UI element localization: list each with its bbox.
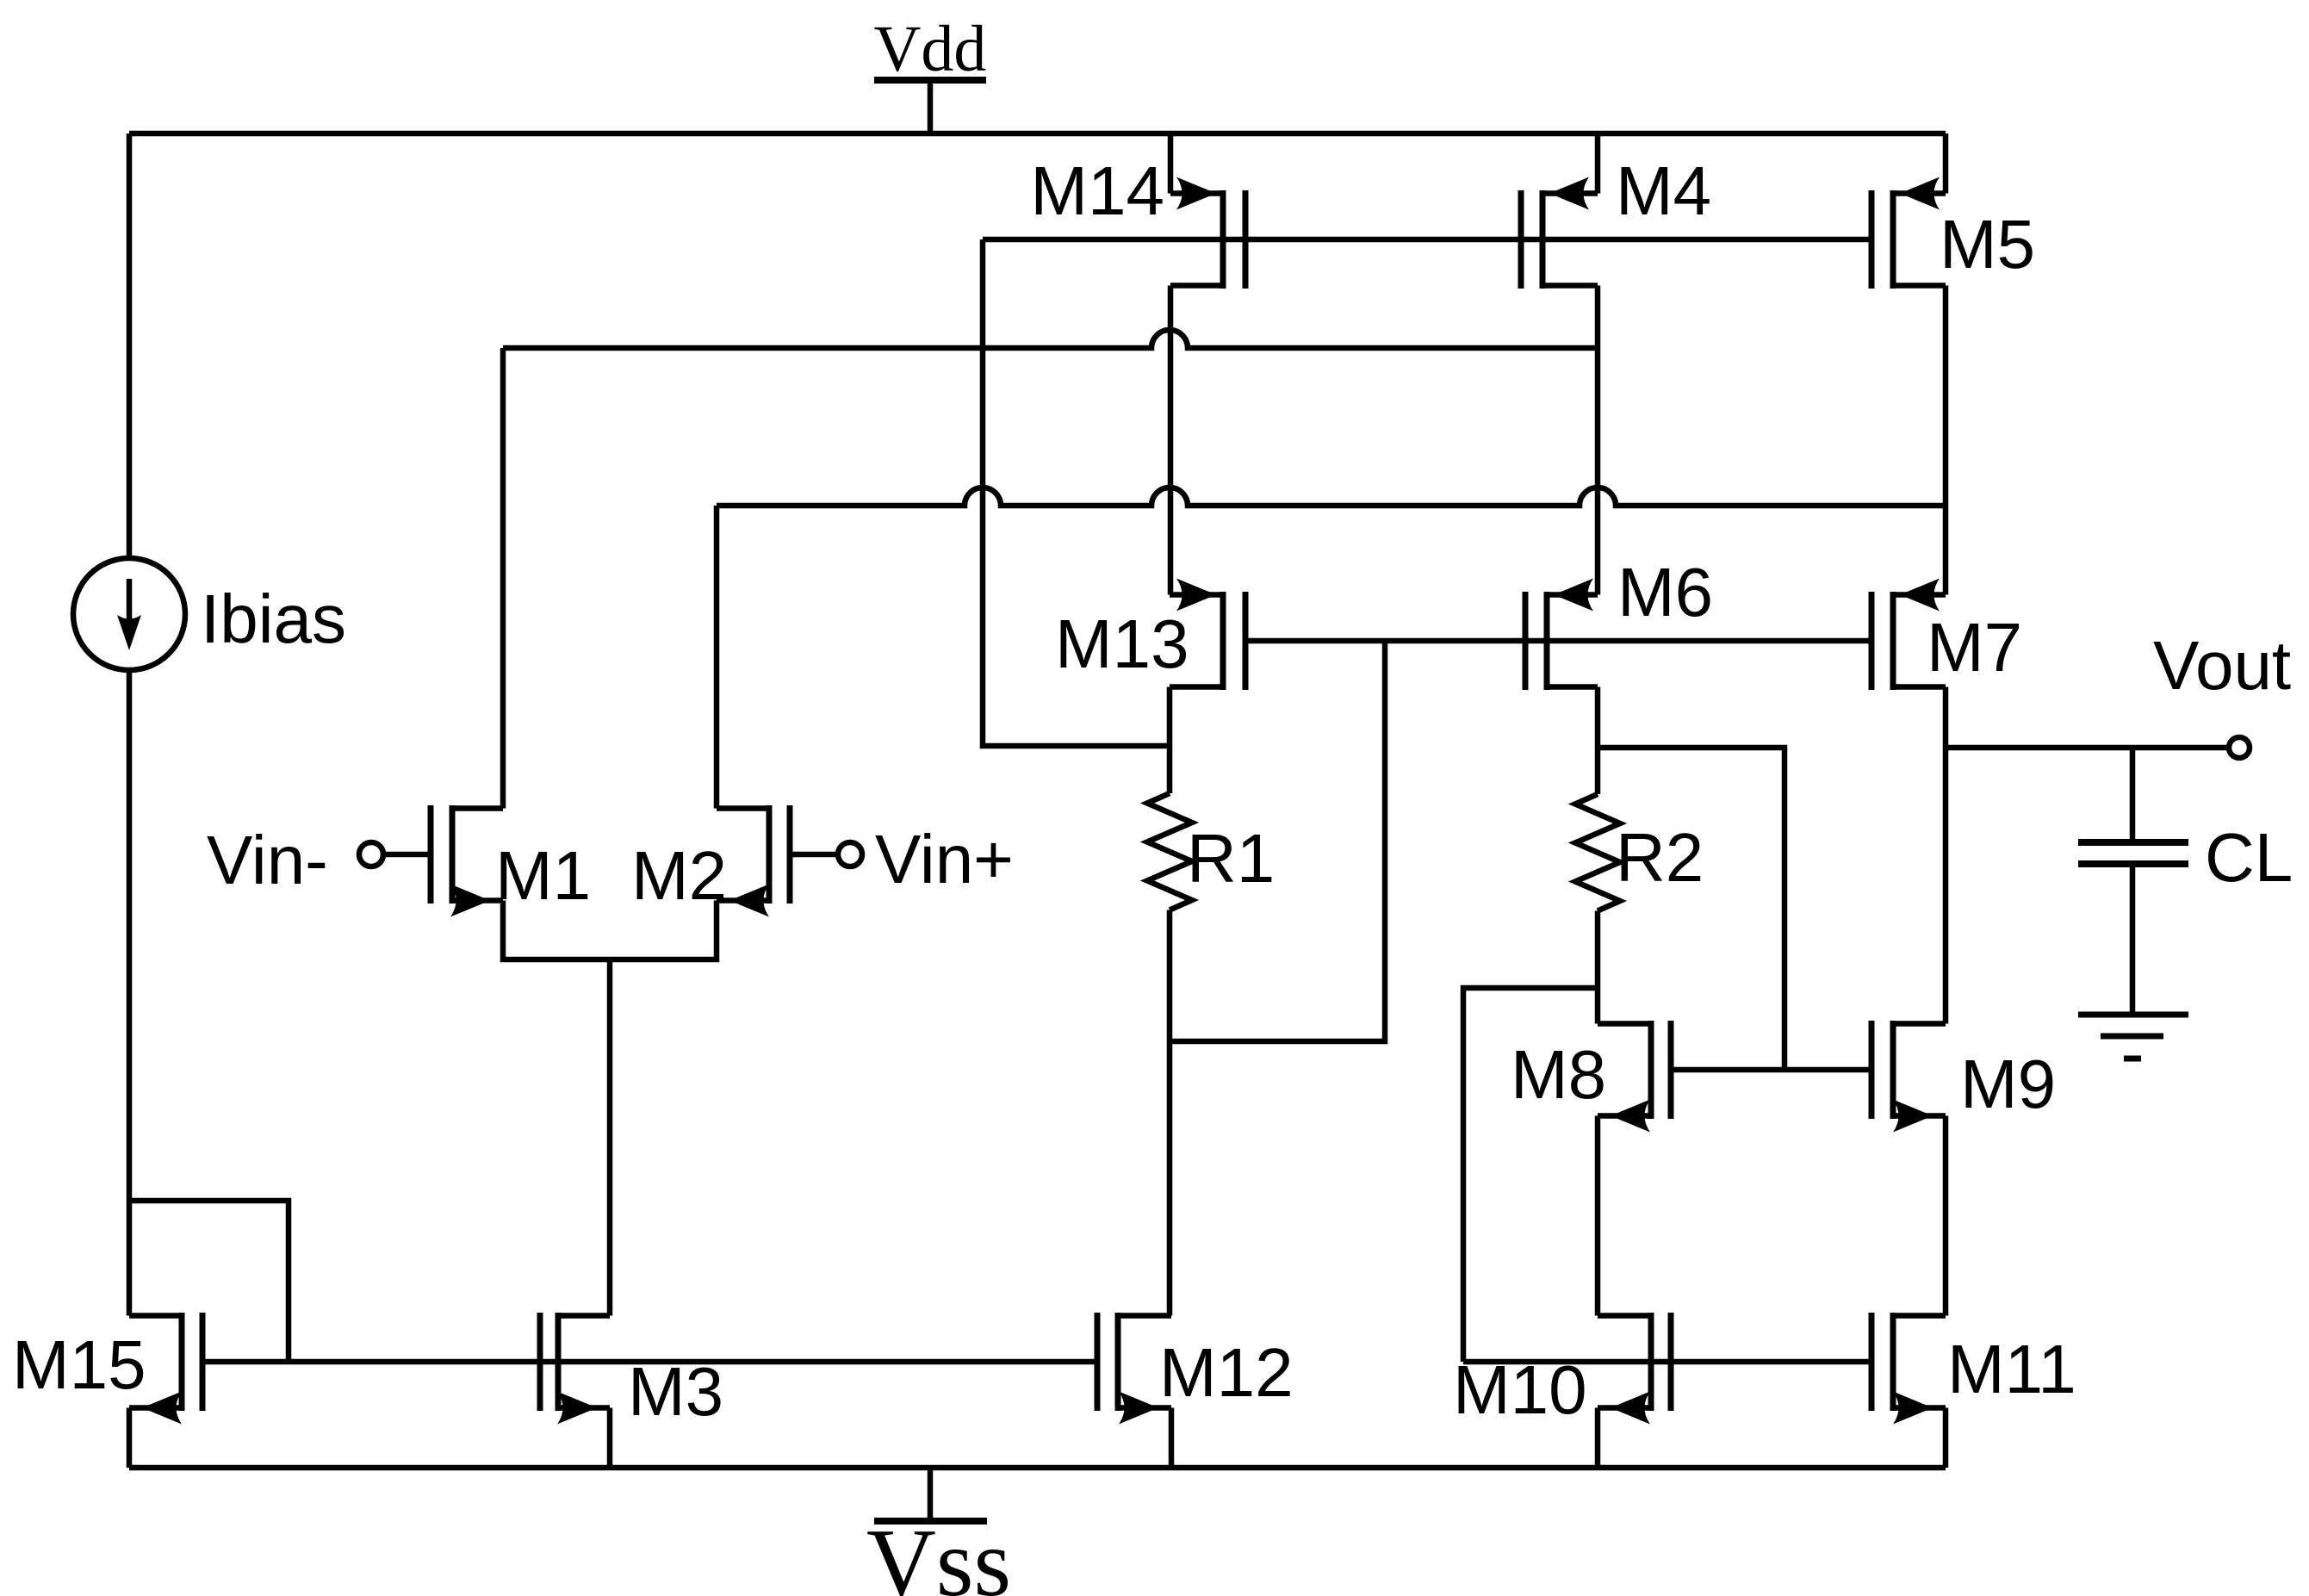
- wire Vdd rail: [129, 131, 1946, 137]
- svg-text:M3: M3: [628, 1353, 723, 1430]
- transistor M13: [1170, 579, 1245, 691]
- svg-text:M5: M5: [1940, 206, 2035, 283]
- wire gate bus drop to M13 drain node: [983, 239, 1170, 746]
- transistor M5: [1871, 177, 1946, 289]
- wire M10 source to Vss rail: [1595, 1408, 1601, 1469]
- wire M15 gate feedback branch: [129, 1201, 289, 1362]
- wire gate bus M8-M9: [1671, 1067, 1871, 1073]
- wire Vout line: [1946, 745, 2229, 751]
- svg-text:M9: M9: [1960, 1046, 2056, 1122]
- wire gate bus M13-M6-M7: [1245, 638, 1871, 644]
- svg-text:M6: M6: [1617, 554, 1713, 630]
- svg-text:Vss: Vss: [866, 1510, 1011, 1596]
- wire M14 source to Vdd rail: [1168, 134, 1174, 194]
- svg-text:CL: CL: [2205, 819, 2293, 896]
- wire M8 source to M10 drain: [1595, 1116, 1601, 1316]
- svg-text:Ibias: Ibias: [201, 581, 346, 657]
- output terminal Vout: [2229, 737, 2250, 758]
- wire M15 source to Vss rail: [127, 1408, 133, 1469]
- transistor M12: [1097, 1313, 1171, 1425]
- capacitor CL: [2078, 748, 2188, 1012]
- resistor R2: [1575, 794, 1620, 911]
- svg-text:Vin-: Vin-: [207, 822, 328, 898]
- transistor M3: [540, 1313, 610, 1425]
- wire R2 bottom to M8 drain: [1595, 911, 1601, 1024]
- transistor M1: [431, 805, 503, 917]
- svg-text:M10: M10: [1453, 1351, 1587, 1428]
- wire M7 drain to M9 drain (output column): [1943, 687, 1949, 1024]
- svg-text:M11: M11: [1947, 1331, 2076, 1407]
- svg-text:R2: R2: [1616, 819, 1704, 896]
- transistor M10: [1598, 1313, 1671, 1425]
- wire M2 drain up: [714, 506, 720, 809]
- svg-text:M4: M4: [1616, 152, 1711, 229]
- transistor M6: [1525, 579, 1598, 691]
- wire R1 bottom to M12 drain: [1167, 910, 1173, 1316]
- wire M8 drain branch to M10 gate: [1463, 988, 1598, 1362]
- wire M1 drain up: [500, 348, 506, 809]
- transistor M9: [1871, 1021, 1946, 1133]
- wire node B: M2 drain to M5 drain (hops x1141, M14-M13 column, M4-M6 column): [717, 487, 1946, 506]
- transistor M8: [1598, 1021, 1671, 1133]
- wire Vss rail: [129, 1465, 1946, 1471]
- input terminal Vin-: [359, 842, 431, 866]
- wire M6 drain to R2: [1595, 687, 1601, 795]
- svg-text:M8: M8: [1511, 1036, 1606, 1113]
- svg-text:Vdd: Vdd: [874, 13, 987, 85]
- ground symbol: [2078, 1015, 2188, 1059]
- power Vdd symbol: [874, 80, 986, 134]
- svg-text:Vin+: Vin+: [875, 821, 1014, 897]
- svg-text:M13: M13: [1055, 605, 1189, 682]
- svg-text:M2: M2: [631, 837, 727, 914]
- wire diff pair common source: [503, 901, 717, 960]
- wire M3 source to Vss rail: [607, 1408, 613, 1469]
- wire gate bus M10-M11: [1463, 1359, 1871, 1365]
- wire M5 source to Vdd rail: [1943, 134, 1949, 194]
- current source Ibias: [73, 558, 185, 670]
- svg-text:M14: M14: [1030, 152, 1164, 229]
- wire M13 drain to R1: [1167, 687, 1173, 794]
- wire M5 drain to M7 source: [1943, 286, 1949, 595]
- wire gate bus M15-M3-M12: [202, 1359, 1097, 1365]
- svg-text:Vout: Vout: [2153, 627, 2291, 704]
- wire M11 source to Vss rail: [1943, 1408, 1949, 1469]
- wire R2 top branch to M8-M9 gates: [1598, 748, 1785, 1070]
- wire left rail lower (Ibias to M15 drain): [127, 670, 133, 1316]
- wire M13 gate drop to R1 bottom node: [1170, 641, 1385, 1041]
- wire node A: M1 drain to M4 drain (hops M14 drain column): [503, 330, 1598, 348]
- wire gate bus M14-M4-M5: [983, 237, 1871, 243]
- svg-text:M12: M12: [1159, 1334, 1294, 1411]
- input terminal Vin+: [790, 842, 862, 866]
- transistor M7: [1871, 579, 1946, 691]
- wire M14 drain to M13 source: [1168, 286, 1174, 595]
- svg-text:M15: M15: [12, 1326, 146, 1403]
- resistor R1: [1147, 793, 1192, 910]
- transistor M15: [129, 1313, 202, 1425]
- wire M9 source to M11 drain: [1943, 1116, 1949, 1316]
- wire M4 source to Vdd rail: [1595, 134, 1601, 194]
- wire left rail upper (Vdd rail to Ibias): [127, 134, 133, 558]
- wire M3 drain to diff pair tail: [607, 959, 613, 1316]
- power Vss symbol: [874, 1468, 987, 1521]
- transistor M2: [717, 805, 790, 917]
- svg-text:M7: M7: [1927, 609, 2022, 686]
- wire M4 drain to M6 source: [1595, 286, 1601, 595]
- svg-text:R1: R1: [1187, 820, 1275, 897]
- wire M12 source to Vss rail: [1169, 1408, 1175, 1469]
- svg-text:M1: M1: [495, 837, 591, 914]
- transistor M14: [1170, 177, 1245, 289]
- transistor M11: [1871, 1313, 1946, 1425]
- transistor M4: [1521, 177, 1598, 289]
